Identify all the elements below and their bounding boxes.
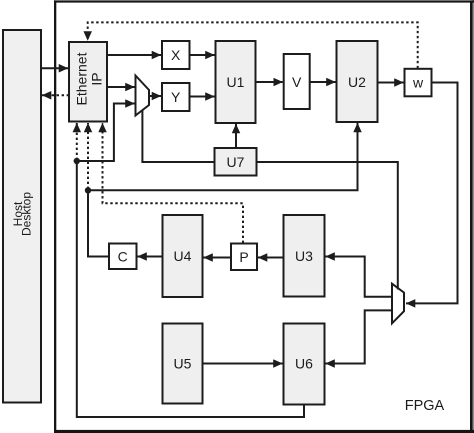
svg-text:U2: U2 [348,74,366,90]
wire U5 to U6 [203,363,283,365]
wire X to U1 [190,54,215,56]
block w [405,69,432,97]
mux M2 (right demultiplexer) [392,284,404,324]
wire node B to Ethernet (dashed) [87,123,89,189]
block Y [162,83,190,111]
svg-text:Y: Y [171,89,181,105]
wire Ethernet to mux M1 input 1 [107,86,135,88]
svg-text:U5: U5 [174,356,192,372]
svg-text:U7: U7 [227,154,245,170]
block U6 [284,324,325,405]
wire U2 to w [378,82,404,84]
wire U4 to C [138,256,163,258]
block V [284,54,310,109]
wire w feedback to mux M2 [406,83,458,304]
node B junction dot [85,187,91,193]
wire Host to Ethernet [41,67,68,69]
svg-text:U4: U4 [174,248,192,264]
wire mux M2 to U3 [326,257,393,297]
wire node B to U2 bottom [88,123,358,190]
wire mux M1 select to U7 [142,110,214,162]
svg-text:FPGA: FPGA [405,398,445,414]
mux M1 (left multiplexer) [136,76,150,116]
svg-text:w: w [412,75,424,91]
Ethernet IP box [69,42,107,122]
FPGA chip outer frame shadow (right edge strip) [472,0,474,433]
wire Ethernet to X [107,54,161,56]
block U5 [163,324,203,404]
svg-text:Ethernet: Ethernet [73,52,89,105]
wire mux M2 to U6 [326,310,393,363]
wire U7 to mux M2 select [257,162,398,290]
svg-text:IP: IP [88,72,104,85]
wire node A to mux M1 input 2 [77,104,135,162]
block C [109,244,137,270]
wire U7 to U1 [235,124,237,148]
wire w to Ethernet top (dashed) [88,22,418,68]
block X [162,41,190,69]
block P [231,244,257,271]
svg-text:U1: U1 [227,74,245,90]
node A junction dot [74,158,80,164]
block U3 [284,215,325,297]
svg-text:U3: U3 [295,248,313,264]
wire U1 to V [256,81,283,83]
wire Ethernet to Host (dashed) [42,94,69,96]
block U7 [215,148,257,176]
Host Desktop box [3,30,41,403]
wire U6 bottom loop to node A [77,161,304,417]
wire V to U2 [310,81,336,83]
svg-text:V: V [292,74,302,90]
block U2 [337,41,378,122]
wire node A to Ethernet (dashed) [76,123,78,160]
block U4 [163,215,203,297]
svg-text:U6: U6 [295,356,313,372]
wire U3 to P [258,257,284,259]
wire Y to U1 [190,96,215,98]
wire P to U4 [204,257,232,259]
svg-text:C: C [118,249,128,265]
wire mux M1 to Y [149,95,161,97]
block U1 [216,41,256,123]
svg-text:Desktop: Desktop [20,192,34,236]
wire P to Ethernet (dashed) [103,123,244,243]
svg-text:X: X [171,47,181,63]
svg-text:P: P [239,249,248,265]
wire C to node B [88,190,109,256]
